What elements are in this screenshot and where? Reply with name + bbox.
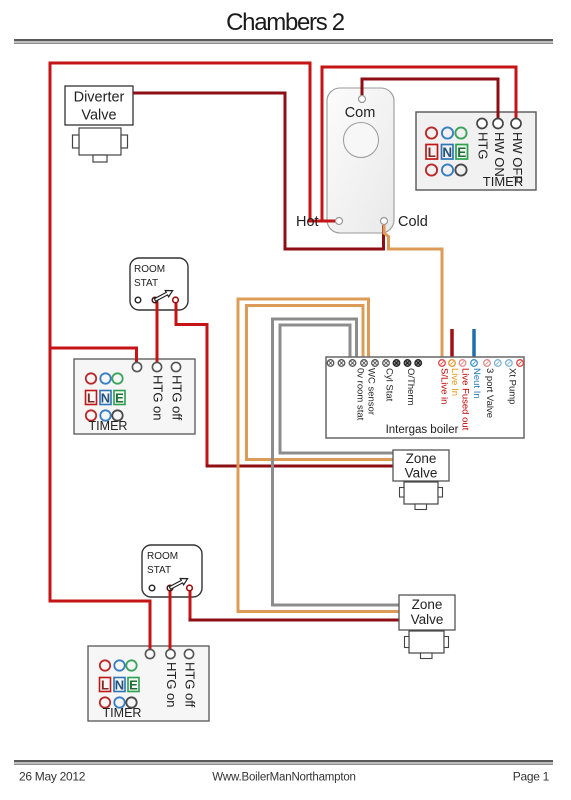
HW timer terminals bbox=[477, 119, 487, 129]
svg-text:HTG on: HTG on bbox=[151, 375, 166, 421]
svg-text:Valve: Valve bbox=[81, 108, 116, 124]
diverter valve bbox=[65, 86, 133, 162]
wire bright red: room stat 1 out, down bbox=[176, 302, 207, 466]
wire red stub: Live in bbox=[450, 329, 454, 357]
room stat 2 switch bbox=[149, 575, 192, 591]
cylinder stat body bbox=[327, 88, 394, 233]
svg-text:O/Therm: O/Therm bbox=[405, 368, 416, 406]
svg-text:Neut In: Neut In bbox=[471, 368, 482, 399]
svg-text:L: L bbox=[428, 145, 436, 160]
svg-text:3 port Valve: 3 port Valve bbox=[484, 368, 495, 418]
wire bright red: room stat 2 pivot to timer2 HTG on bbox=[169, 590, 172, 652]
Intergas boiler box bbox=[326, 357, 524, 438]
wire gray: zone valve 1 to boiler bbox=[280, 325, 394, 453]
svg-text:TIMER: TIMER bbox=[103, 706, 142, 720]
svg-text:Live In: Live In bbox=[449, 368, 460, 396]
wire bright red: hot up to HW OFF bbox=[322, 67, 516, 221]
svg-text:Zone: Zone bbox=[406, 451, 437, 466]
svg-text:Zone: Zone bbox=[412, 597, 443, 612]
timer 1 box bbox=[74, 359, 195, 434]
wire dark red: to zone valve 2 bbox=[189, 619, 401, 622]
svg-text:Diverter: Diverter bbox=[74, 90, 125, 106]
svg-text:Page 1: Page 1 bbox=[513, 770, 550, 784]
svg-text:Com: Com bbox=[345, 105, 376, 121]
wire gray: zone valve 2 to boiler bbox=[273, 319, 401, 605]
svg-text:E: E bbox=[129, 678, 138, 693]
svg-text:STAT: STAT bbox=[147, 565, 171, 576]
wire orange: Cold to boiler S/Live in bbox=[384, 224, 442, 357]
wire dark red: diverter valve to Cold bbox=[133, 93, 384, 249]
svg-text:Chambers 2: Chambers 2 bbox=[226, 9, 345, 36]
terminal x marks bbox=[329, 361, 388, 365]
svg-text:Cyl Stat: Cyl Stat bbox=[384, 368, 395, 402]
svg-text:HW ON: HW ON bbox=[492, 132, 507, 177]
svg-text:STAT: STAT bbox=[134, 278, 158, 289]
wire orange: zone valve 2 to boiler bbox=[238, 299, 400, 612]
svg-text:N: N bbox=[115, 678, 124, 693]
wire bright red: room stat 1 pivot to timer1 HTG on bbox=[156, 302, 159, 366]
svg-text:HTG on: HTG on bbox=[164, 662, 179, 708]
HW timer box bbox=[416, 112, 536, 190]
svg-text:Valve: Valve bbox=[405, 466, 438, 481]
timer1 terminals bbox=[132, 362, 141, 371]
svg-text:0v room stat: 0v room stat bbox=[355, 368, 366, 421]
svg-text:26 May 2012: 26 May 2012 bbox=[19, 770, 86, 784]
svg-text:Intergas boiler: Intergas boiler bbox=[386, 424, 459, 436]
boiler terminals gray bbox=[327, 360, 389, 367]
wire orange: zone valve 1 to boiler bbox=[247, 306, 395, 460]
svg-text:HTG off: HTG off bbox=[170, 375, 185, 421]
svg-text:N: N bbox=[101, 391, 110, 406]
svg-text:L: L bbox=[87, 391, 95, 406]
boiler terminal labels bbox=[355, 368, 518, 431]
svg-text:HW OFF: HW OFF bbox=[510, 132, 525, 183]
svg-text:E: E bbox=[115, 391, 124, 406]
footer rule bbox=[14, 760, 553, 762]
zone valve 2 bbox=[399, 595, 455, 659]
wire bright red: hot to trunk, down left side, to timer2 bbox=[50, 63, 339, 652]
svg-text:Live Fused out: Live Fused out bbox=[460, 368, 471, 431]
title rule bbox=[14, 39, 553, 41]
room stat 1 box bbox=[130, 258, 188, 310]
wire dark red: to zone valve 1 bbox=[206, 465, 395, 468]
svg-text:ROOM: ROOM bbox=[147, 551, 178, 562]
svg-text:Cold: Cold bbox=[398, 214, 428, 230]
svg-text:Valve: Valve bbox=[411, 612, 444, 627]
wire bright red branch: trunk to timer1 terminal bbox=[50, 348, 137, 366]
svg-text:Xt Pump: Xt Pump bbox=[507, 368, 518, 404]
svg-text:E: E bbox=[457, 145, 466, 160]
wire bright red: room stat 2 out, down bbox=[189, 589, 192, 620]
svg-text:S/Live in: S/Live in bbox=[439, 368, 450, 404]
svg-text:ROOM: ROOM bbox=[134, 264, 165, 275]
room stat 1 switch bbox=[135, 287, 178, 303]
svg-text:WC sensor: WC sensor bbox=[366, 368, 377, 415]
wire dark red: Com to HW ON bbox=[362, 79, 498, 124]
boiler terminals coloured bbox=[439, 360, 446, 367]
wire blue stub: Neut in bbox=[472, 329, 476, 357]
svg-text:HTG off: HTG off bbox=[183, 662, 198, 708]
cylinder stat terminals bbox=[359, 96, 366, 103]
svg-text:HTG: HTG bbox=[476, 132, 491, 159]
svg-text:N: N bbox=[442, 145, 452, 160]
zone valve 1 bbox=[393, 450, 449, 510]
svg-text:L: L bbox=[101, 678, 109, 693]
svg-text:Www.BoilerManNorthampton: Www.BoilerManNorthampton bbox=[212, 772, 355, 784]
svg-text:TIMER: TIMER bbox=[89, 419, 128, 433]
room stat 2 box bbox=[142, 545, 202, 597]
timer 2 box bbox=[88, 646, 209, 721]
svg-text:Hot: Hot bbox=[296, 214, 319, 230]
timer2 terminals bbox=[145, 649, 154, 658]
